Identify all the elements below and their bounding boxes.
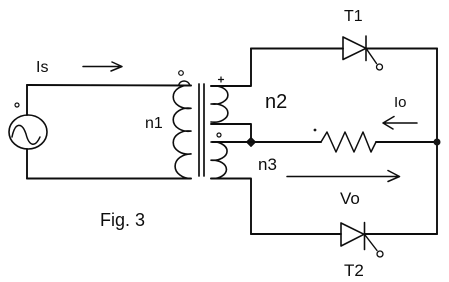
transformer secondary winding n2 [211,86,228,122]
T1 gate lead [366,48,377,63]
center-tap junction [247,138,256,147]
svg-text:Is: Is [36,59,48,76]
wire right vertical rail [436,49,438,235]
T1 gate terminal circle [377,64,383,70]
svg-text:n2: n2 [265,91,287,113]
wire n2 top stub and riser to top rail [211,49,251,87]
wire bottom rail to T2 [251,233,341,235]
transformer secondary winding n3 [211,142,227,179]
terminal dot marker near source [15,103,19,107]
transformer primary winding n1 [173,85,191,178]
svg-text:Io: Io [394,94,407,111]
svg-text:Fig. 3: Fig. 3 [100,210,145,230]
Io current arrow [383,117,417,130]
svg-text:T1: T1 [344,8,363,25]
wire middle rail left of resistor [212,141,321,143]
svg-text:n1: n1 [145,115,163,132]
ac source V1 [9,115,47,149]
transformer core [199,84,204,176]
T2 gate lead [365,234,378,250]
Is current arrow [83,62,122,71]
wire T2 cathode to right rail [365,233,438,235]
wire top rail to T1 [251,48,343,50]
wire n2 bottom stub [211,124,251,142]
junction dot right rail [434,139,441,146]
wire middle rail right of resistor [376,141,437,143]
wire source bottom vertical [26,149,28,179]
wire T1 cathode to right rail [366,48,437,50]
T2 gate terminal circle [377,251,383,257]
svg-text:Vo: Vo [340,189,360,208]
svg-text:T2: T2 [344,261,364,280]
load resistor [321,132,376,152]
thyristor T2 [341,223,364,246]
polarity dot above primary [179,71,184,76]
wire source top vertical [26,85,28,115]
plus mark left of resistor [314,129,317,132]
wire n3 bottom stub and drop to bottom rail [211,179,251,235]
thyristor T1 [343,37,366,60]
ac source sine wave [12,125,40,144]
wire bottom-left rail [27,178,191,180]
wire top-left rail [27,84,191,87]
plus mark above secondary [219,77,224,82]
polarity dot at center tap [217,133,221,137]
svg-text:n3: n3 [258,155,277,174]
Vo arrow [287,171,400,182]
primary top curl [179,81,191,86]
